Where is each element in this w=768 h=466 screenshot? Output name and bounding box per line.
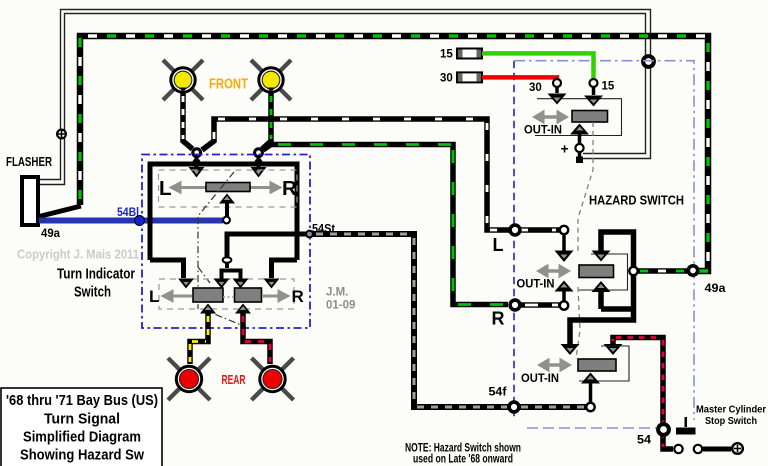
connector arrow: lower inner-left	[214, 279, 230, 289]
node: plus terminal on supply line near flasher	[57, 130, 66, 139]
connector arrow: lower unit left down-arrow	[561, 344, 580, 355]
wire: Y-split from oval to lower wipers	[222, 263, 241, 279]
detail: gray double arrow hazard power	[533, 111, 568, 124]
node: hazard L ring terminal	[510, 225, 520, 235]
component: lower contact block right	[235, 288, 262, 302]
svg-text:15: 15	[602, 81, 615, 93]
wire: wiper stem	[225, 204, 229, 217]
detail: thin contact frame middle unit	[579, 254, 628, 290]
detail: upper mechanism thin dashed frame	[159, 170, 298, 207]
wire: black/red wire to rear right lamp	[243, 313, 270, 364]
svg-text:Copyright J. Mais 2011: Copyright J. Mais 2011	[17, 247, 139, 262]
box: turn indicator switch blue dash-dot boundary	[142, 155, 310, 329]
svg-text:Switch: Switch	[74, 284, 111, 301]
component: lower contact block left	[193, 288, 223, 302]
wire: black wire from wiper oval to 54St terminal	[227, 234, 306, 257]
wire: black/green/white dashed border wire (base)	[80, 36, 708, 271]
svg-text:'68 thru '71 Bay Bus (US): '68 thru '71 Bay Bus (US)	[6, 393, 158, 409]
connector arrow: lower unit up-arrow	[581, 373, 600, 403]
wire: green wire from fuse 15 to hazard	[482, 53, 594, 78]
detail: gray double arrow lower	[162, 290, 290, 302]
svg-text:FLASHER: FLASHER	[6, 154, 52, 169]
node: 54Bl wiper terminal circle	[223, 217, 230, 224]
wire: hazard middle C-link	[570, 232, 634, 344]
node: hazard + terminal	[575, 144, 583, 152]
svg-text:L: L	[149, 287, 159, 306]
wire: white twin-line supply wire (inner line)	[40, 14, 646, 185]
svg-text:54: 54	[637, 435, 652, 447]
svg-text:L: L	[493, 235, 504, 255]
wire: R row wire from ring to contact circle	[521, 302, 560, 308]
connector arrow: lower outer-left	[178, 279, 194, 289]
wire: black/white wire from left lamp node to hazard L terminal	[202, 119, 560, 230]
svg-text:01-09: 01-09	[326, 300, 355, 312]
node: junction dot left on housing edge	[193, 159, 201, 167]
title box	[1, 388, 162, 466]
connector arrow: red output up-arrow	[235, 304, 251, 314]
connector arrow: lower unit right down-arrow	[604, 344, 623, 355]
detail: thin contact frame lower unit	[579, 346, 629, 381]
fuse: 15 fuse	[457, 49, 482, 59]
wire: front right lamp black/green stem	[262, 93, 271, 149]
detail: dotted link between contact blocks	[223, 296, 234, 298]
connector arrow: 15 into hazard switch	[584, 87, 603, 107]
node: junction dot right on housing edge	[255, 159, 263, 167]
detail: dashed mechanical link hazard	[576, 122, 593, 359]
lamp: rear right turn lamp	[252, 358, 294, 400]
svg-text:used on Late '68 onward: used on Late '68 onward	[413, 454, 513, 466]
svg-text:J.M.: J.M.	[326, 287, 348, 299]
svg-text:R: R	[292, 287, 304, 306]
fuse: 30 fuse	[457, 72, 482, 82]
lamp: front left turn lamp	[163, 60, 203, 100]
connector arrow: middle right down-arrow	[592, 251, 611, 262]
svg-text:Showing Hazard Sw: Showing Hazard Sw	[20, 448, 145, 464]
connector arrow: 30 into hazard switch	[548, 87, 567, 105]
svg-text:Simplified Diagram: Simplified Diagram	[23, 430, 141, 446]
node: hazard terminal 15	[590, 79, 598, 87]
node: 49a ring terminal	[688, 266, 697, 275]
node: hazard R ring terminal	[510, 300, 520, 310]
detail: gray double arrow hazard middle	[537, 265, 570, 278]
wire: black diagonal from flasher to border wire	[39, 206, 81, 217]
housing: turn switch black housing	[150, 164, 297, 260]
wire: housing right leg to lower contact	[272, 260, 298, 278]
svg-text:R: R	[282, 177, 297, 200]
svg-text:L: L	[159, 177, 172, 200]
svg-text:54f: 54f	[489, 387, 507, 399]
svg-text:30: 30	[440, 73, 453, 85]
svg-text:OUT-IN: OUT-IN	[524, 123, 562, 137]
component: hazard lower slider	[578, 359, 616, 371]
node: right lamp ring terminal	[255, 149, 263, 157]
component: flasher relay box	[22, 177, 38, 225]
node: hazard terminal 30	[553, 79, 561, 87]
wire: white twin-line supply wire (outer line)	[40, 10, 651, 180]
svg-text:HAZARD SWITCH: HAZARD SWITCH	[589, 193, 684, 208]
detail: thin contact frame top unit	[535, 99, 622, 136]
node: left lamp ring terminal	[193, 149, 201, 157]
wire: housing left leg to lower contact	[150, 260, 184, 278]
wire: red wire from fuse 30 to hazard	[482, 75, 557, 80]
svg-text:Master Cylinder: Master Cylinder	[696, 404, 766, 416]
svg-text:Turn Indicator: Turn Indicator	[57, 266, 135, 283]
connector arrow: yellow output up-arrow	[200, 304, 216, 314]
node: battery plus symbol	[732, 443, 743, 454]
box: hazard switch blue dash-dot boundary	[513, 61, 515, 420]
node: hazard L contact circle	[560, 226, 568, 234]
node: stop switch contact A	[674, 445, 682, 453]
node: 54f ring terminal	[509, 402, 519, 412]
connector arrow: middle right up-arrow	[592, 281, 611, 292]
wire: stop switch feed bar	[703, 447, 731, 452]
lamp: front right turn lamp	[251, 60, 291, 100]
connector arrow: left lamp into upper contacts	[189, 167, 205, 178]
wire: stem from left ring into switch	[195, 157, 199, 168]
wire: black/yellow wire to rear left lamp	[190, 313, 208, 364]
node: hazard output circle on C-link	[629, 267, 637, 275]
svg-text:OUT-IN: OUT-IN	[521, 371, 559, 385]
connector arrow: 54Bl wiper up-arrow	[219, 194, 235, 204]
connector arrow: lower inner-right	[233, 279, 249, 289]
svg-text:Stop Switch: Stop Switch	[705, 415, 757, 427]
wire: + stem to twin supply line	[578, 153, 582, 158]
svg-text:15: 15	[440, 49, 453, 61]
detail: gray double arrow hazard lower	[538, 359, 571, 372]
detail: dash-dot mechanical link	[198, 172, 246, 327]
connector arrow: lower outer-right	[264, 279, 280, 289]
connector arrow: L down-arrow	[555, 234, 574, 262]
node: junction ring on twin line at hazard box top	[643, 56, 654, 67]
svg-text:R: R	[492, 309, 505, 329]
node: 54Bl blue junction dot	[135, 216, 145, 226]
svg-text:49a: 49a	[41, 226, 60, 240]
svg-text:+: +	[561, 141, 569, 157]
wire: green/black wire from hazard output to 49a ring	[638, 268, 688, 274]
wire: red/black wire from lower unit to 54 and stop switch	[613, 338, 673, 450]
svg-text:49a: 49a	[705, 283, 727, 295]
connector arrow: right lamp into upper contacts	[251, 167, 267, 178]
node: 54St gray terminal	[306, 231, 313, 238]
wire: border wire white dashes	[80, 36, 708, 271]
node: lower unit contact circle 54f row	[586, 403, 594, 411]
wire: blue 54Bl wire from flasher to turn switch	[39, 218, 223, 224]
connector arrow: R up-arrow	[555, 281, 574, 302]
component: hazard middle slider	[579, 265, 614, 278]
node: 54 ring terminal	[658, 424, 669, 435]
node: stop switch contact B	[694, 445, 702, 453]
lamp: rear left turn lamp	[168, 358, 210, 400]
wire: gray 54St wire to hazard 54f row	[313, 234, 586, 407]
node: oval terminal above lower contacts	[223, 257, 232, 263]
svg-text:30: 30	[529, 82, 542, 94]
svg-text:FRONT: FRONT	[209, 77, 248, 93]
component: master cylinder stop switch plunger	[685, 417, 688, 427]
connector arrow: hazard power up-arrow	[570, 124, 589, 144]
component: hazard power slider	[572, 111, 608, 123]
wire: stem from right ring into switch	[257, 157, 261, 168]
wire: border wire green dashes	[80, 36, 708, 271]
detail: lower mechanism thin dashed frame	[159, 279, 294, 309]
svg-text:OUT-IN: OUT-IN	[517, 277, 555, 291]
svg-text:Turn Signal: Turn Signal	[44, 412, 120, 428]
detail: gray double arrow upper	[170, 182, 282, 194]
node: hazard R contact circle	[560, 301, 568, 309]
svg-text:REAR: REAR	[222, 373, 246, 387]
component: upper contact slider bar	[206, 183, 250, 192]
wire: front left lamp black/white stem	[183, 93, 193, 149]
wire: black/green wire from right lamp node to hazard R terminal	[263, 145, 508, 305]
